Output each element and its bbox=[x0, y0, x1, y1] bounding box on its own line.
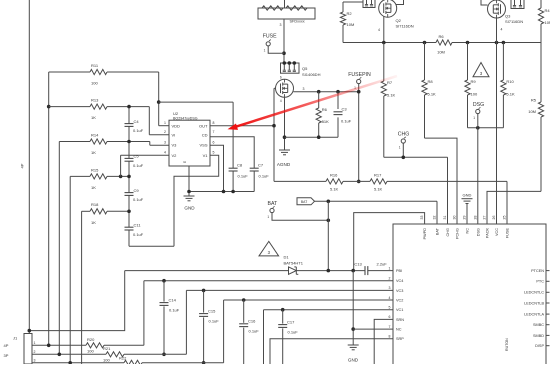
svg-text:NC: NC bbox=[466, 228, 470, 234]
svg-text:3: 3 bbox=[303, 87, 305, 91]
svg-text:1K: 1K bbox=[91, 185, 96, 190]
svg-text:CHG: CHG bbox=[398, 132, 410, 138]
svg-text:C9: C9 bbox=[134, 188, 140, 193]
svg-text:C17: C17 bbox=[287, 320, 295, 325]
svg-text:1: 1 bbox=[164, 121, 166, 125]
svg-text:6: 6 bbox=[213, 141, 215, 145]
svg-text:1: 1 bbox=[267, 215, 269, 219]
svg-text:R6: R6 bbox=[322, 107, 328, 112]
svg-text:CD: CD bbox=[202, 132, 208, 137]
svg-text:27: 27 bbox=[483, 216, 487, 220]
svg-text:SI1406DH: SI1406DH bbox=[302, 72, 321, 77]
svg-text:3: 3 bbox=[164, 141, 166, 145]
svg-text:5.1K: 5.1K bbox=[374, 187, 383, 192]
svg-text:2: 2 bbox=[389, 277, 391, 281]
svg-text:4: 4 bbox=[378, 28, 380, 32]
svg-text:R11: R11 bbox=[91, 63, 99, 68]
svg-text:2: 2 bbox=[34, 350, 36, 354]
svg-text:SI7116DN: SI7116DN bbox=[505, 19, 523, 24]
svg-text:C11: C11 bbox=[134, 222, 142, 227]
svg-text:R20: R20 bbox=[87, 337, 95, 342]
svg-text:C13: C13 bbox=[354, 261, 362, 266]
svg-text:4: 4 bbox=[501, 28, 503, 32]
svg-text:VCC: VCC bbox=[495, 228, 499, 236]
svg-text:PTCEN: PTCEN bbox=[531, 269, 544, 273]
svg-text:26: 26 bbox=[492, 216, 496, 220]
svg-text:1: 1 bbox=[473, 116, 475, 120]
svg-text:1: 1 bbox=[34, 341, 36, 345]
svg-text:5.1K: 5.1K bbox=[506, 92, 515, 97]
svg-text:R21: R21 bbox=[103, 346, 111, 351]
svg-text:1K: 1K bbox=[91, 150, 96, 155]
svg-text:29: 29 bbox=[463, 216, 467, 220]
svg-text:R6: R6 bbox=[438, 34, 444, 39]
svg-text:VDD: VDD bbox=[172, 123, 181, 128]
svg-text:4P: 4P bbox=[20, 163, 25, 168]
svg-text:PTC: PTC bbox=[536, 280, 544, 284]
svg-text:SRP: SRP bbox=[396, 337, 404, 341]
svg-text:BAT54HT1: BAT54HT1 bbox=[284, 261, 304, 266]
svg-text:PWPD: PWPD bbox=[423, 228, 427, 240]
svg-text:R22: R22 bbox=[119, 355, 127, 360]
svg-text:VC4: VC4 bbox=[396, 279, 403, 283]
svg-text:2: 2 bbox=[164, 130, 166, 134]
svg-text:0.1uF: 0.1uF bbox=[133, 163, 144, 168]
svg-text:7: 7 bbox=[213, 130, 215, 134]
svg-text:E: E bbox=[183, 161, 187, 163]
svg-text:100: 100 bbox=[91, 81, 98, 86]
svg-text:6: 6 bbox=[280, 76, 282, 80]
svg-text:LEDCNTLC: LEDCNTLC bbox=[524, 291, 544, 295]
svg-text:SMBC: SMBC bbox=[533, 323, 544, 327]
svg-text:DSG: DSG bbox=[476, 228, 480, 236]
svg-text:10M: 10M bbox=[347, 22, 355, 27]
svg-text:3: 3 bbox=[280, 23, 282, 27]
svg-text:BAT: BAT bbox=[268, 201, 279, 207]
svg-text:RUTON: RUTON bbox=[505, 338, 509, 351]
svg-text:R5: R5 bbox=[531, 98, 537, 103]
svg-text:4: 4 bbox=[389, 296, 391, 300]
svg-text:PCHG: PCHG bbox=[456, 228, 460, 239]
svg-text:Q5: Q5 bbox=[302, 66, 308, 71]
svg-text:1K: 1K bbox=[91, 220, 96, 225]
svg-text:1K: 1K bbox=[91, 115, 96, 120]
svg-text:0.1uF: 0.1uF bbox=[238, 174, 249, 179]
svg-text:C3: C3 bbox=[342, 107, 348, 112]
svg-text:VC1: VC1 bbox=[396, 308, 403, 312]
svg-text:30: 30 bbox=[453, 216, 457, 220]
svg-text:R8: R8 bbox=[428, 79, 434, 84]
svg-text:Q2: Q2 bbox=[396, 18, 402, 23]
svg-text:GND: GND bbox=[463, 193, 472, 198]
svg-text:10M: 10M bbox=[437, 50, 445, 55]
svg-text:6: 6 bbox=[389, 315, 391, 319]
svg-text:DSG: DSG bbox=[473, 102, 484, 108]
svg-text:R7: R7 bbox=[387, 80, 393, 85]
svg-text:0.1uF: 0.1uF bbox=[133, 232, 144, 237]
svg-text:R14: R14 bbox=[91, 132, 99, 137]
svg-text:32: 32 bbox=[433, 216, 437, 220]
svg-text:PACK: PACK bbox=[486, 228, 490, 239]
svg-text:5.1K: 5.1K bbox=[330, 187, 339, 192]
svg-text:1: 1 bbox=[399, 146, 401, 150]
svg-text:DISP: DISP bbox=[535, 344, 544, 348]
svg-text:R2: R2 bbox=[347, 11, 353, 16]
svg-text:0.1uF: 0.1uF bbox=[169, 308, 180, 313]
svg-text:FUSE: FUSE bbox=[506, 228, 510, 239]
svg-text:4: 4 bbox=[280, 99, 282, 103]
svg-text:0.1uF: 0.1uF bbox=[209, 319, 220, 324]
svg-text:R18: R18 bbox=[91, 202, 99, 207]
svg-text:SMBD: SMBD bbox=[533, 334, 544, 338]
svg-text:3: 3 bbox=[389, 286, 391, 290]
svg-text:28: 28 bbox=[473, 216, 477, 220]
svg-text:5.1K: 5.1K bbox=[428, 92, 437, 97]
svg-text:1: 1 bbox=[264, 48, 266, 52]
svg-text:C4: C4 bbox=[134, 119, 140, 124]
svg-text:LEDCNTLA: LEDCNTLA bbox=[524, 313, 544, 317]
svg-text:V1: V1 bbox=[203, 153, 209, 158]
svg-text:Q3: Q3 bbox=[505, 14, 511, 19]
svg-text:BAT: BAT bbox=[301, 200, 307, 204]
svg-text:BAT: BAT bbox=[436, 227, 440, 235]
svg-text:R13: R13 bbox=[91, 98, 99, 103]
svg-text:0.1uF: 0.1uF bbox=[341, 119, 352, 124]
svg-text:FUSEPIN: FUSEPIN bbox=[348, 72, 371, 78]
svg-text:33: 33 bbox=[420, 216, 424, 220]
svg-text:0.1uF: 0.1uF bbox=[259, 174, 270, 179]
svg-text:100: 100 bbox=[103, 357, 110, 362]
svg-text:CHG: CHG bbox=[446, 228, 450, 236]
svg-text:VC2: VC2 bbox=[396, 298, 403, 302]
svg-text:8: 8 bbox=[213, 121, 215, 125]
svg-text:10M: 10M bbox=[545, 20, 550, 25]
svg-text:31: 31 bbox=[443, 216, 447, 220]
svg-text:C15: C15 bbox=[208, 309, 216, 314]
svg-text:V2: V2 bbox=[172, 153, 178, 158]
svg-text:3: 3 bbox=[34, 359, 36, 363]
svg-text:SRN: SRN bbox=[396, 318, 404, 322]
svg-text:R4: R4 bbox=[545, 8, 550, 13]
svg-text:C16: C16 bbox=[248, 319, 256, 324]
svg-text:C5: C5 bbox=[134, 154, 140, 159]
svg-text:U2: U2 bbox=[173, 111, 179, 116]
svg-text:BQ2947xyDSG: BQ2947xyDSG bbox=[173, 117, 198, 121]
svg-text:51K: 51K bbox=[322, 119, 329, 124]
svg-text:VI: VI bbox=[172, 132, 176, 137]
svg-text:FUSE: FUSE bbox=[263, 34, 277, 40]
svg-text:R17: R17 bbox=[374, 173, 382, 178]
svg-text:C14: C14 bbox=[169, 298, 177, 303]
svg-text:VSS: VSS bbox=[199, 143, 207, 148]
svg-text:R15: R15 bbox=[91, 167, 99, 172]
svg-text:4P: 4P bbox=[4, 343, 9, 348]
svg-text:100: 100 bbox=[471, 92, 478, 97]
svg-text:100: 100 bbox=[87, 348, 94, 353]
svg-text:1: 1 bbox=[389, 266, 391, 270]
svg-text:GND: GND bbox=[184, 206, 195, 211]
svg-text:V3: V3 bbox=[172, 143, 178, 148]
svg-text:25: 25 bbox=[503, 216, 507, 220]
svg-text:OUT: OUT bbox=[199, 123, 208, 128]
svg-text:R9: R9 bbox=[471, 79, 477, 84]
svg-text:5: 5 bbox=[213, 151, 215, 155]
svg-text:SFDxxxx: SFDxxxx bbox=[290, 20, 305, 24]
svg-text:8: 8 bbox=[389, 335, 391, 339]
svg-text:LEDCNTLB: LEDCNTLB bbox=[524, 301, 544, 305]
svg-text:0.1uF: 0.1uF bbox=[288, 330, 299, 335]
svg-text:AGND: AGND bbox=[277, 162, 291, 167]
svg-text:R10: R10 bbox=[506, 79, 514, 84]
svg-text:C8: C8 bbox=[237, 163, 243, 168]
svg-text:GND: GND bbox=[348, 358, 359, 363]
svg-text:3P: 3P bbox=[4, 353, 9, 358]
svg-text:0.1uF: 0.1uF bbox=[133, 197, 144, 202]
svg-text:10M: 10M bbox=[528, 109, 536, 114]
svg-text:5.1K: 5.1K bbox=[387, 93, 396, 98]
svg-text:4: 4 bbox=[164, 151, 166, 155]
svg-text:PBI: PBI bbox=[396, 269, 402, 273]
svg-text:0.1uF: 0.1uF bbox=[249, 329, 260, 334]
svg-text:0.1uF: 0.1uF bbox=[133, 128, 144, 133]
svg-text:D1: D1 bbox=[284, 255, 290, 260]
svg-text:VC3: VC3 bbox=[396, 289, 403, 293]
svg-text:2.2uF: 2.2uF bbox=[377, 261, 388, 266]
svg-text:C7: C7 bbox=[258, 163, 264, 168]
svg-text:SI7116DN: SI7116DN bbox=[396, 24, 414, 29]
svg-text:7: 7 bbox=[389, 325, 391, 329]
svg-text:NC: NC bbox=[396, 328, 402, 332]
svg-text:5: 5 bbox=[389, 306, 391, 310]
svg-text:R16: R16 bbox=[330, 173, 338, 178]
